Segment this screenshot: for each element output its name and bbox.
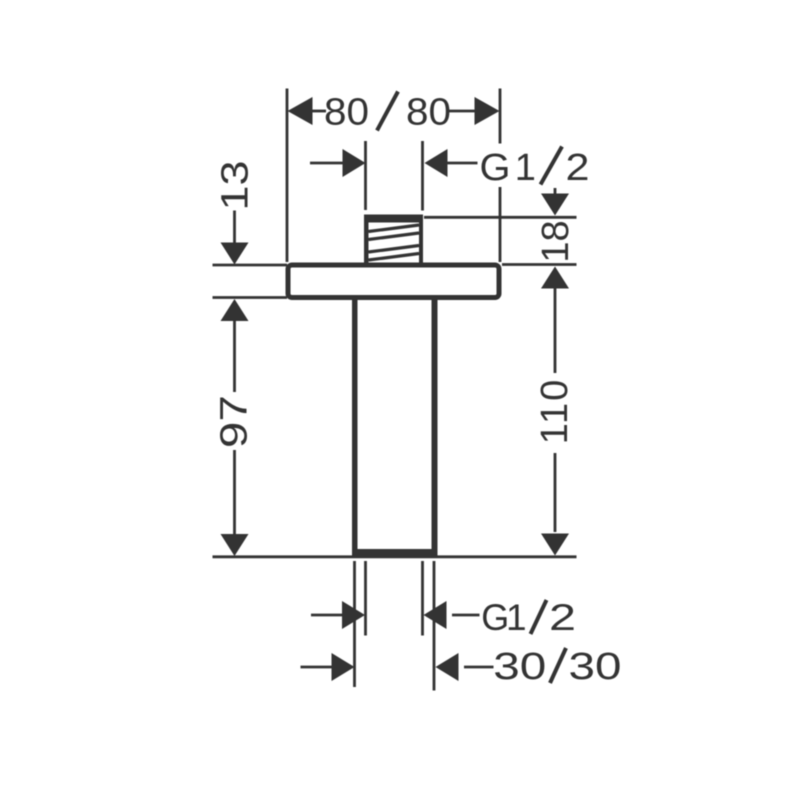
svg-text:30: 30 <box>493 646 546 688</box>
svg-text:110: 110 <box>534 378 576 445</box>
svg-text:G: G <box>480 147 511 189</box>
svg-text:1: 1 <box>515 147 536 189</box>
svg-text:13: 13 <box>215 161 257 211</box>
svg-text:1: 1 <box>506 597 527 638</box>
svg-text:80: 80 <box>324 92 369 134</box>
svg-text:30: 30 <box>569 646 622 688</box>
svg-text:80: 80 <box>406 92 451 134</box>
svg-text:97: 97 <box>214 395 256 448</box>
svg-text:2: 2 <box>549 597 576 638</box>
svg-text:2: 2 <box>566 147 590 189</box>
svg-text:18: 18 <box>535 220 577 262</box>
